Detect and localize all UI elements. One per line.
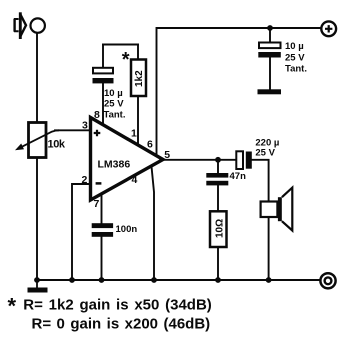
svg-text:25 V: 25 V (104, 99, 124, 110)
svg-text:Tant.: Tant. (104, 110, 126, 121)
svg-text:3: 3 (82, 120, 88, 132)
svg-text:1k2: 1k2 (134, 70, 145, 87)
svg-text:25 V: 25 V (255, 148, 275, 159)
svg-text:10Ω: 10Ω (215, 219, 226, 238)
svg-text:Tant.: Tant. (285, 64, 307, 75)
svg-text:47n: 47n (230, 171, 247, 182)
svg-text:LM386: LM386 (98, 158, 131, 170)
svg-text:6: 6 (147, 139, 153, 151)
svg-text:10 µ: 10 µ (104, 88, 123, 99)
svg-text:R= 1k2 gain is x50 (34dB): R= 1k2 gain is x50 (34dB) (23, 297, 212, 314)
svg-text:8: 8 (94, 109, 100, 121)
svg-text:*: * (122, 49, 130, 71)
svg-text:25 V: 25 V (285, 53, 305, 64)
svg-text:2: 2 (82, 174, 88, 186)
svg-text:7: 7 (94, 198, 100, 210)
svg-text:100n: 100n (116, 224, 138, 235)
svg-text:5: 5 (164, 149, 170, 161)
svg-text:10 µ: 10 µ (285, 41, 304, 52)
svg-text:1: 1 (131, 128, 137, 140)
svg-text:10k: 10k (48, 139, 66, 151)
svg-text:4: 4 (132, 174, 138, 186)
svg-text:R= 0 gain is x200 (46dB): R= 0 gain is x200 (46dB) (32, 316, 211, 333)
svg-text:*: * (8, 294, 17, 319)
